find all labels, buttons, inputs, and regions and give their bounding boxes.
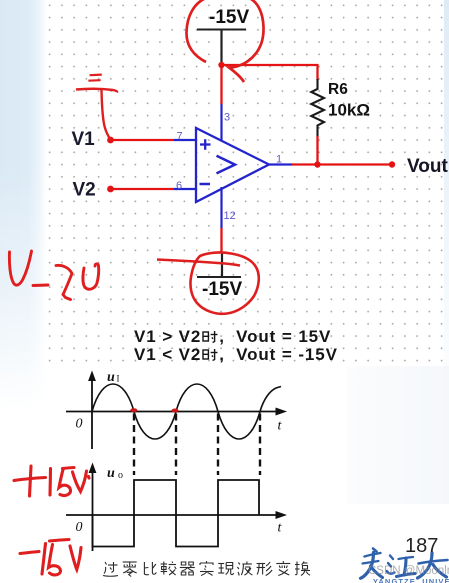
annotation red circle around top -15V	[186, 0, 263, 82]
glyph 换	[295, 562, 310, 576]
op-amp U1	[196, 128, 269, 202]
watermark CSDN	[368, 565, 449, 577]
condition text line 2	[134, 344, 338, 364]
condition text line 1	[134, 326, 331, 346]
svg-text:Vout: Vout	[407, 156, 448, 177]
waveform ui axes	[66, 371, 287, 450]
glyph 比	[144, 562, 156, 575]
pin 6 lead	[174, 188, 196, 190]
caption 过零比较器实现波形变换	[100, 558, 330, 582]
glyph 形	[257, 562, 273, 576]
node V1 terminal	[107, 137, 114, 144]
net label V2	[73, 180, 96, 201]
glyph 波	[237, 562, 252, 576]
logo text YANGTZE UNIVERSITY	[373, 577, 449, 583]
pin 7 lead	[174, 139, 196, 141]
svg-text:12: 12	[224, 210, 236, 222]
dashed drop line 2	[175, 414, 177, 476]
dashed drop line 3	[217, 414, 219, 476]
annotation red handwriting +15V	[14, 466, 89, 496]
wire V2 to pin 6	[111, 188, 175, 190]
annotation red handwriting U_>0	[9, 251, 98, 300]
svg-text:V2: V2	[73, 180, 96, 201]
value label R6 10kΩ	[328, 81, 370, 120]
svg-text:t: t	[278, 521, 283, 536]
wire V1 to pin 7	[111, 139, 175, 141]
pin number 6	[176, 180, 182, 192]
wire V- vertical red	[220, 228, 222, 253]
axis label uo	[107, 466, 123, 481]
glyph 变	[276, 561, 290, 576]
svg-text:u: u	[107, 370, 115, 385]
glyph 零	[123, 562, 137, 577]
svg-text:6: 6	[176, 180, 182, 192]
pin number 3	[224, 112, 230, 124]
node V2 terminal	[107, 186, 114, 193]
dashed drop line 1	[133, 414, 135, 476]
node Vout terminal	[389, 161, 395, 167]
svg-text:V1: V1	[72, 129, 96, 150]
logo calligraphy 长江大	[361, 549, 448, 579]
svg-text:-15V: -15V	[202, 279, 242, 300]
power symbol bottom -15V bar	[197, 252, 241, 277]
pin number 1	[276, 154, 282, 166]
axis label t (ui)	[278, 419, 283, 434]
node supply junction	[218, 62, 224, 68]
svg-text:I: I	[117, 374, 120, 384]
glyph 现	[218, 563, 234, 575]
glyph 实	[200, 561, 214, 576]
pin 1 output lead	[269, 163, 292, 165]
pin number 12	[224, 210, 236, 222]
node zero-crossing dot 1	[130, 408, 137, 412]
value label -15V bottom	[202, 279, 242, 300]
wire V+ vertical red	[220, 64, 222, 104]
resistor R6	[311, 79, 324, 137]
svg-text:-15V: -15V	[209, 7, 249, 28]
dashed drop line 4	[259, 414, 261, 476]
svg-text:3: 3	[224, 112, 230, 124]
svg-text:10kΩ: 10kΩ	[328, 101, 370, 120]
pin 3 lead	[220, 104, 222, 141]
node output junction	[314, 161, 320, 167]
value label -15V top	[209, 7, 249, 28]
svg-text:1: 1	[276, 154, 282, 166]
svg-text:7: 7	[177, 131, 183, 143]
node zero-crossing dot 2	[172, 409, 179, 413]
svg-text:o: o	[118, 470, 123, 481]
pin 12 lead	[220, 187, 222, 228]
svg-text:R6: R6	[328, 81, 348, 98]
svg-text:u: u	[107, 466, 115, 481]
axis label uI	[107, 370, 120, 385]
wire top horizontal to resistor	[222, 65, 318, 80]
waveform uo axes	[66, 463, 287, 552]
net label V1	[72, 129, 96, 150]
wire output to Vout	[292, 163, 392, 165]
wire resistor to output node	[316, 136, 318, 165]
annotation red handwriting -15V (bottom)	[20, 540, 81, 575]
annotation red circle around bottom -15V	[157, 252, 259, 313]
glyph 器	[180, 562, 195, 575]
sine curve uI	[92, 384, 281, 439]
annotation red equals + lead-in curve at V1	[76, 75, 117, 140]
axis origin 0 (ui)	[76, 417, 83, 432]
glyph 过	[103, 562, 118, 576]
svg-text:t: t	[278, 419, 283, 434]
glyph 较	[161, 562, 177, 576]
axis origin 0 (uo)	[76, 520, 83, 535]
page number 187	[405, 535, 438, 558]
axis label t (uo)	[278, 521, 283, 536]
square wave uo	[93, 480, 260, 547]
svg-text:0: 0	[76, 417, 83, 432]
pin number 7	[177, 131, 183, 143]
net label Vout	[407, 156, 448, 177]
svg-text:0: 0	[76, 520, 83, 535]
power symbol top -15V bar	[197, 30, 246, 65]
